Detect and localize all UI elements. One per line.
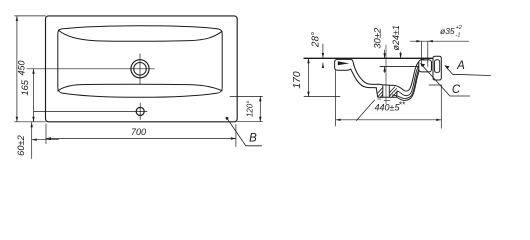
dim 450 arrows bbox=[16, 16, 18, 21]
dim 170 bottom extension bbox=[304, 96, 340, 98]
dim 700 arrows bbox=[46, 137, 51, 139]
basin rear slope curve (top interior) bbox=[58, 30, 222, 41]
back wall line 2 bbox=[397, 60, 427, 95]
svg-text:60±2: 60±2 bbox=[16, 134, 26, 155]
dim 60±2 line bbox=[31, 122, 33, 158]
dim 28° arrows bbox=[322, 53, 324, 58]
svg-text:700: 700 bbox=[131, 127, 146, 137]
svg-text:30±2: 30±2 bbox=[372, 27, 383, 49]
deck inner line bbox=[380, 66, 419, 68]
faucet hole box bbox=[419, 60, 432, 72]
dia24 pointer bbox=[400, 52, 402, 58]
svg-text:A: A bbox=[456, 60, 465, 72]
view B leader dot bbox=[226, 117, 229, 120]
faucet hole inner circle bbox=[134, 63, 147, 76]
dim 165 line bbox=[33, 69, 35, 122]
mounting flange outline bbox=[433, 56, 441, 80]
dim 60±2 arrow left bbox=[32, 139, 37, 141]
view B leader line bbox=[227, 118, 262, 146]
view C leader line bbox=[421, 64, 470, 97]
dim 440 arrows bbox=[336, 119, 341, 121]
view A leader arrow bbox=[445, 66, 450, 70]
dim dia35 arrows bbox=[416, 40, 421, 42]
dim 170 line bbox=[308, 58, 310, 96]
flange lower extension bbox=[429, 84, 441, 86]
basin floor inner line bbox=[378, 84, 395, 85]
flange keyhole slot bbox=[435, 60, 440, 73]
dim 440 text slash bbox=[357, 100, 375, 121]
faucet hole centerline horizontal bbox=[27, 68, 155, 70]
overflow hole centerline horizontal bbox=[34, 110, 147, 112]
svg-text:120°: 120° bbox=[246, 100, 255, 117]
svg-text:450: 450 bbox=[17, 60, 27, 75]
dim 60±2 lower reference line bbox=[32, 139, 59, 141]
dim 60±2 arrow up bbox=[31, 122, 33, 127]
dim 120° extension top bbox=[230, 95, 263, 97]
rim lip slot bbox=[338, 61, 350, 65]
back wall line 1 (inner) bbox=[395, 58, 428, 91]
dim 120° arrows bbox=[259, 96, 261, 101]
dim 450 extension top bbox=[15, 15, 46, 17]
svg-text:ø24±1: ø24±1 bbox=[391, 25, 401, 50]
svg-text:**: ** bbox=[399, 100, 406, 110]
dim dia35 line bbox=[410, 40, 469, 42]
faucet hole outer circle bbox=[131, 60, 149, 78]
view C leader arrow bbox=[421, 64, 426, 68]
svg-text:440±5: 440±5 bbox=[375, 103, 401, 113]
back wall line 4 (outer) bbox=[397, 67, 422, 101]
faucet hole centerline vertical bbox=[139, 54, 141, 84]
svg-text:28°: 28° bbox=[311, 32, 322, 48]
dim 28° line bbox=[322, 44, 324, 68]
drain hatch right bbox=[389, 87, 397, 97]
svg-text:170: 170 bbox=[292, 71, 303, 88]
svg-text:ø35: ø35 bbox=[440, 26, 455, 36]
svg-text:B: B bbox=[249, 132, 257, 144]
dim 450 line bbox=[16, 16, 18, 122]
drain hole walls bbox=[383, 85, 390, 97]
sink outer rectangle bbox=[46, 16, 238, 122]
dim 165 arrows bbox=[32, 69, 34, 74]
dim 120° line bbox=[259, 96, 261, 121]
drain centerline bbox=[385, 45, 387, 104]
svg-text:165: 165 bbox=[20, 79, 30, 95]
basin opening outline bbox=[58, 26, 222, 98]
view A leader line bbox=[445, 66, 491, 76]
drain hatch left bbox=[377, 88, 383, 98]
left rim cut profile bottom + front wall outer line bbox=[335, 59, 377, 87]
svg-text:C: C bbox=[452, 84, 461, 96]
overflow hole circle bbox=[136, 107, 144, 115]
dim 700 extension left bbox=[45, 124, 47, 144]
left rim cut profile top + front wall inner line bbox=[338, 59, 378, 84]
drain centerline ticks bbox=[378, 99, 390, 101]
dim 30±2 arrows on centerline bbox=[383, 53, 385, 58]
dim 450 extension bottom bbox=[15, 121, 46, 123]
dim 700 extension right bbox=[235, 125, 237, 147]
dim 440 line bbox=[336, 119, 442, 121]
overflow hole centerline vertical bbox=[139, 103, 141, 120]
dim 170 arrows bbox=[307, 58, 309, 63]
section top rim line bbox=[304, 57, 433, 59]
back wall line 3 bbox=[392, 64, 422, 99]
dim 440 extension left bbox=[335, 71, 337, 127]
svg-text:-1: -1 bbox=[456, 33, 461, 39]
basin front slope curve (bottom interior) bbox=[58, 84, 223, 91]
dim 120° extension bottom bbox=[237, 121, 262, 123]
drain boss outline bbox=[376, 88, 397, 98]
faucet hole walls bbox=[421, 41, 427, 66]
dim 700 line bbox=[46, 138, 236, 140]
svg-text:+2: +2 bbox=[456, 25, 462, 31]
